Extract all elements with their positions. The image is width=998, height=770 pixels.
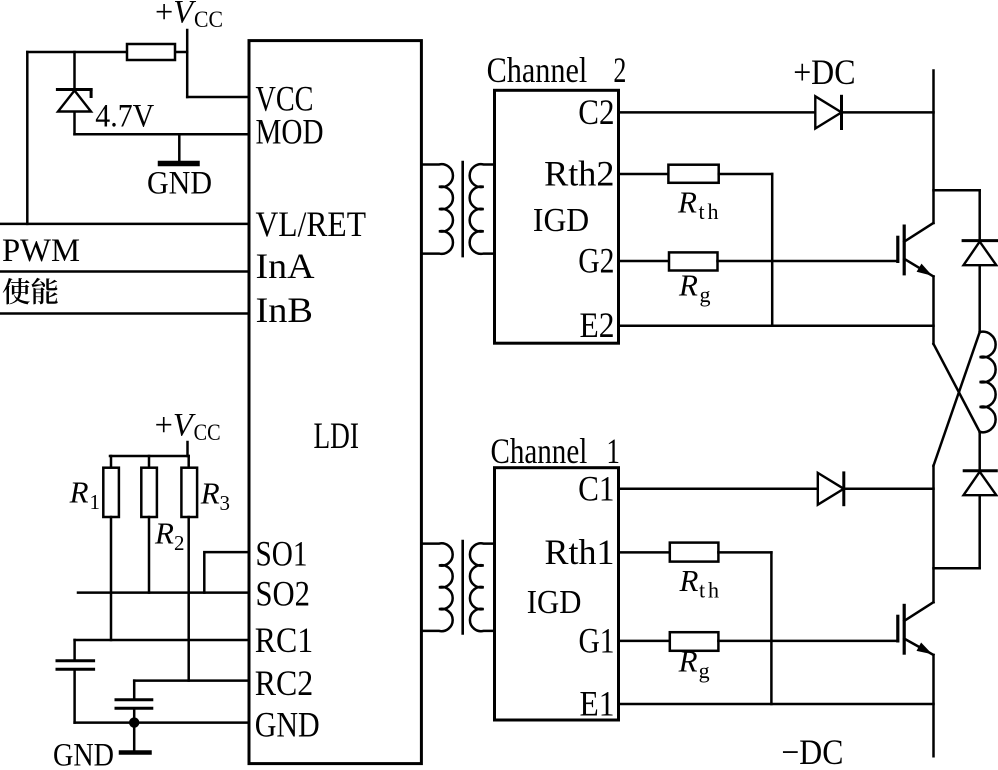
capacitor C1 xyxy=(57,661,94,670)
svg-text:RC1: RC1 xyxy=(255,620,314,660)
wire to -DC xyxy=(932,655,935,756)
wire xyxy=(73,640,76,659)
wire xyxy=(934,567,980,570)
zener diode 4.7V xyxy=(57,52,91,134)
svg-text:CC: CC xyxy=(194,7,223,32)
wire xyxy=(110,456,113,468)
diode D+ DC xyxy=(815,96,841,128)
transformer T1 xyxy=(421,162,494,256)
wire GND pin xyxy=(75,721,249,724)
wire xyxy=(719,173,773,176)
wire xyxy=(133,681,136,698)
wire VL/RET xyxy=(0,223,249,226)
svg-text:VL/RET: VL/RET xyxy=(256,204,367,244)
op-amp U3 IGD channel 1 xyxy=(495,468,619,720)
svg-text:g: g xyxy=(699,658,710,683)
svg-text:LDI: LDI xyxy=(314,416,360,457)
svg-text:4.7V: 4.7V xyxy=(95,99,154,135)
transformer T2 xyxy=(421,541,494,633)
resistor R1 xyxy=(103,468,119,517)
svg-text:IGD: IGD xyxy=(533,202,589,239)
wire xyxy=(770,552,773,704)
wire xyxy=(978,432,981,470)
svg-text:G2: G2 xyxy=(578,241,614,281)
wire G1 xyxy=(619,640,670,643)
wire SO1 xyxy=(204,552,249,593)
wire InA (PWM) xyxy=(0,270,249,273)
svg-text:R: R xyxy=(679,563,699,598)
ground bottom xyxy=(121,723,150,753)
wire xyxy=(842,111,934,114)
svg-text:th: th xyxy=(699,578,719,603)
svg-text:R: R xyxy=(678,644,698,679)
wire xyxy=(934,189,980,192)
wire xyxy=(187,456,190,468)
svg-text:RC2: RC2 xyxy=(255,663,314,703)
wire diag to load xyxy=(934,344,980,432)
wire xyxy=(844,488,934,491)
svg-text:MOD: MOD xyxy=(256,112,324,152)
svg-text:GND: GND xyxy=(147,166,212,202)
wire xyxy=(27,51,127,54)
wire C1 xyxy=(619,488,818,491)
resistor Rth ch2 xyxy=(668,165,718,183)
wire RC1 xyxy=(75,639,249,642)
svg-text:Rth2: Rth2 xyxy=(544,154,614,194)
svg-text:GND: GND xyxy=(53,738,114,770)
svg-text:GND: GND xyxy=(255,705,320,745)
resistor Rg ch2 xyxy=(669,252,718,270)
wire xyxy=(718,640,897,643)
svg-text:g: g xyxy=(700,282,711,307)
wire xyxy=(133,710,136,723)
wire xyxy=(978,495,981,568)
wire xyxy=(978,265,981,332)
capacitor C2 xyxy=(116,700,152,709)
svg-text:InB: InB xyxy=(256,290,314,330)
wire bus xyxy=(110,455,189,458)
svg-text:R: R xyxy=(69,475,89,510)
svg-text:InA: InA xyxy=(256,246,315,286)
resistor xyxy=(127,44,175,60)
input label enable (Chinese) xyxy=(3,278,58,305)
op-amp U2 IGD channel 2 xyxy=(495,90,619,343)
node +VCC bottom xyxy=(186,442,189,456)
svg-text:Rth1: Rth1 xyxy=(545,532,615,572)
svg-text:th: th xyxy=(699,199,719,224)
wire xyxy=(187,517,190,681)
wire emitter 2 xyxy=(932,276,935,344)
wire xyxy=(110,517,113,640)
svg-text:+V: +V xyxy=(155,408,197,444)
svg-text:IGD: IGD xyxy=(527,584,582,621)
svg-text:R: R xyxy=(154,515,174,550)
node junction xyxy=(129,717,139,727)
wire SO2 xyxy=(78,591,249,594)
wire InB (enable) xyxy=(0,312,249,315)
wire G2 xyxy=(619,260,670,263)
svg-text:E2: E2 xyxy=(580,305,615,345)
svg-text:3: 3 xyxy=(220,491,231,515)
svg-text:CC: CC xyxy=(194,420,221,445)
wire xyxy=(26,52,29,224)
svg-text:Channel: Channel xyxy=(491,431,588,471)
svg-text:G1: G1 xyxy=(579,621,615,661)
resistor R2 xyxy=(141,468,157,517)
transistor Q2 upper IGBT xyxy=(898,223,934,276)
ground xyxy=(161,134,198,163)
wire xyxy=(718,551,771,554)
svg-text:+DC: +DC xyxy=(793,52,855,92)
wire diag from load xyxy=(934,332,980,466)
resistor Rth ch1 xyxy=(670,543,719,562)
resistor R3 xyxy=(181,468,197,517)
svg-text:Channel: Channel xyxy=(487,50,588,90)
svg-text:2: 2 xyxy=(613,50,626,90)
wire MOD xyxy=(75,133,250,136)
diode freewheel lower xyxy=(964,471,997,496)
transistor Q1 lower IGBT xyxy=(898,602,934,655)
node +VCC top xyxy=(186,30,189,97)
svg-text:R: R xyxy=(678,268,698,303)
wire RC2 xyxy=(134,679,249,682)
svg-text:2: 2 xyxy=(174,531,185,555)
svg-text:SO1: SO1 xyxy=(256,534,308,574)
wire xyxy=(718,260,898,263)
svg-text:1: 1 xyxy=(90,490,101,514)
svg-text:1: 1 xyxy=(606,431,620,471)
wire E1 xyxy=(619,703,934,706)
svg-text:−DC: −DC xyxy=(781,732,843,770)
wire Rth1 xyxy=(619,551,670,554)
wire C2 xyxy=(619,111,816,114)
wire xyxy=(73,671,76,723)
inductor load xyxy=(980,332,996,433)
wire xyxy=(148,456,151,468)
diode D1 xyxy=(818,473,844,505)
wire xyxy=(175,51,187,54)
svg-text:R: R xyxy=(677,185,697,220)
wire xyxy=(978,190,981,240)
svg-text:PWM: PWM xyxy=(2,233,80,269)
wire Rth2 xyxy=(619,173,669,176)
diode freewheel upper xyxy=(963,241,997,266)
wire xyxy=(771,174,774,326)
resistor Rg ch1 xyxy=(670,632,719,651)
wire mid rail xyxy=(932,466,935,603)
svg-text:E1: E1 xyxy=(580,684,615,724)
svg-text:C2: C2 xyxy=(578,92,614,132)
wire E2 xyxy=(619,324,934,327)
wire xyxy=(148,517,151,593)
svg-text:+V: +V xyxy=(155,0,197,31)
op-amp U1 LDI driver IC xyxy=(249,41,421,764)
svg-text:C1: C1 xyxy=(578,469,614,509)
wire +DC rail xyxy=(932,71,935,224)
wire xyxy=(187,96,249,99)
svg-text:R: R xyxy=(200,476,220,511)
svg-text:SO2: SO2 xyxy=(256,574,311,614)
